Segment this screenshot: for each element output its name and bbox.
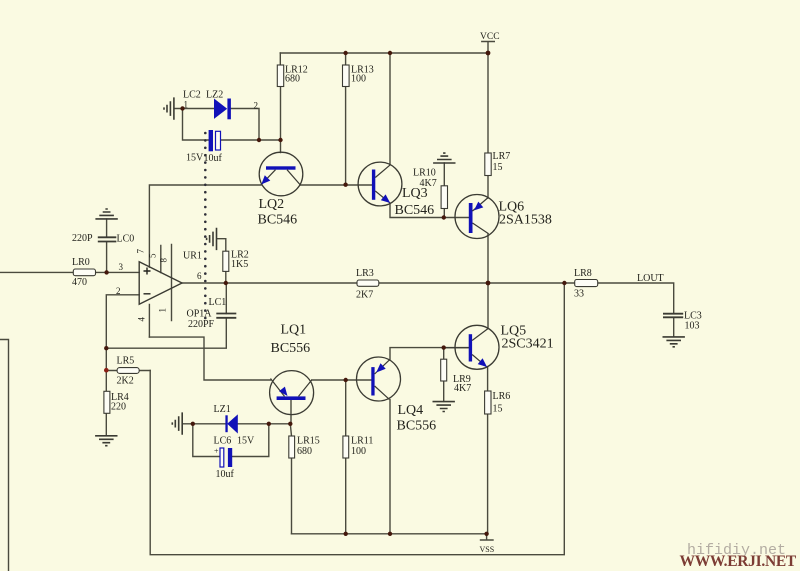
- svg-text:LQ1: LQ1: [281, 323, 307, 338]
- svg-text:220P: 220P: [72, 233, 93, 244]
- svg-text:2K7: 2K7: [356, 290, 373, 301]
- svg-text:2SC3421: 2SC3421: [502, 337, 554, 352]
- svg-text:2: 2: [116, 286, 121, 296]
- svg-text:LC1: LC1: [209, 297, 227, 308]
- svg-text:8: 8: [159, 258, 169, 263]
- svg-text:VSS: VSS: [480, 545, 495, 554]
- svg-text:1: 1: [158, 308, 168, 313]
- svg-text:220: 220: [111, 402, 126, 413]
- svg-text:LR0: LR0: [72, 257, 90, 268]
- svg-text:LR15: LR15: [297, 436, 320, 447]
- svg-text:LC0: LC0: [117, 233, 135, 244]
- svg-text:LOUT: LOUT: [637, 273, 664, 284]
- svg-text:BC546: BC546: [258, 213, 298, 228]
- svg-text:15V: 15V: [186, 153, 204, 164]
- svg-text:2: 2: [254, 101, 259, 111]
- svg-text:LC6: LC6: [214, 436, 232, 447]
- svg-text:LR7: LR7: [493, 151, 511, 162]
- svg-text:4: 4: [137, 317, 147, 322]
- svg-text:7: 7: [136, 249, 146, 254]
- svg-text:4K7: 4K7: [454, 383, 471, 394]
- svg-text:LR10: LR10: [413, 168, 436, 179]
- svg-text:LQ4: LQ4: [398, 403, 424, 418]
- svg-text:680: 680: [297, 446, 312, 457]
- svg-text:100: 100: [351, 446, 366, 457]
- svg-text:LR3: LR3: [356, 268, 374, 279]
- svg-text:LQ2: LQ2: [259, 197, 285, 212]
- svg-text:LR6: LR6: [493, 391, 511, 402]
- svg-text:LR5: LR5: [117, 356, 135, 367]
- svg-text:VCC: VCC: [480, 32, 500, 42]
- svg-text:33: 33: [574, 289, 584, 300]
- svg-text:2SA1538: 2SA1538: [499, 213, 552, 228]
- svg-text:WWW.ERJI.NET: WWW.ERJI.NET: [680, 553, 797, 570]
- svg-text:BC556: BC556: [397, 419, 437, 434]
- svg-text:1: 1: [184, 100, 189, 110]
- svg-text:+: +: [214, 447, 219, 456]
- svg-text:BC546: BC546: [395, 203, 435, 218]
- svg-text:15: 15: [493, 404, 503, 415]
- svg-text:220PF: 220PF: [188, 319, 215, 330]
- svg-text:LZ2: LZ2: [206, 90, 223, 101]
- svg-text:100: 100: [351, 74, 366, 85]
- svg-text:15: 15: [493, 162, 503, 173]
- svg-text:LR11: LR11: [351, 436, 373, 447]
- svg-text:UR1: UR1: [183, 251, 202, 262]
- svg-text:LQ3: LQ3: [402, 186, 428, 201]
- svg-text:5: 5: [148, 253, 158, 258]
- svg-text:BC556: BC556: [271, 341, 311, 356]
- svg-text:2K2: 2K2: [117, 376, 134, 387]
- svg-text:103: 103: [685, 321, 700, 332]
- svg-text:680: 680: [285, 74, 300, 85]
- svg-text:470: 470: [72, 277, 87, 288]
- svg-text:10uf: 10uf: [204, 153, 223, 164]
- svg-text:1K5: 1K5: [231, 259, 248, 270]
- svg-text:3: 3: [119, 262, 124, 272]
- svg-text:OP1A: OP1A: [187, 309, 213, 320]
- svg-text:6: 6: [197, 271, 202, 281]
- svg-text:15V: 15V: [237, 436, 255, 447]
- svg-text:LR8: LR8: [574, 268, 592, 279]
- svg-text:10uf: 10uf: [216, 469, 235, 480]
- svg-text:LZ1: LZ1: [214, 404, 231, 415]
